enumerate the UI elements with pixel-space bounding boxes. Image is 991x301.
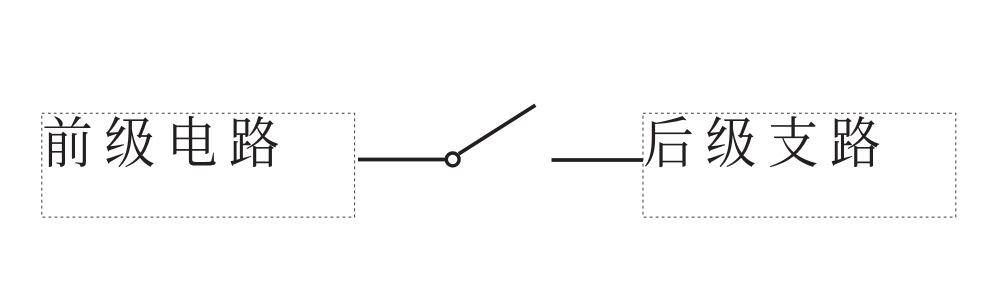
switch S lever arm (open position) (459, 105, 536, 154)
label text 前级电路 (44, 116, 278, 167)
wire from switch throw to rear-stage branch (552, 158, 644, 162)
switch S contact node (circle) (446, 153, 459, 166)
wire from front-stage circuit to switch pole (358, 158, 445, 162)
label text 后级支路 (645, 116, 879, 167)
block box: front-stage circuit (前级电路) (42, 113, 355, 217)
block box: rear-stage branch (后级支路) (643, 113, 956, 217)
